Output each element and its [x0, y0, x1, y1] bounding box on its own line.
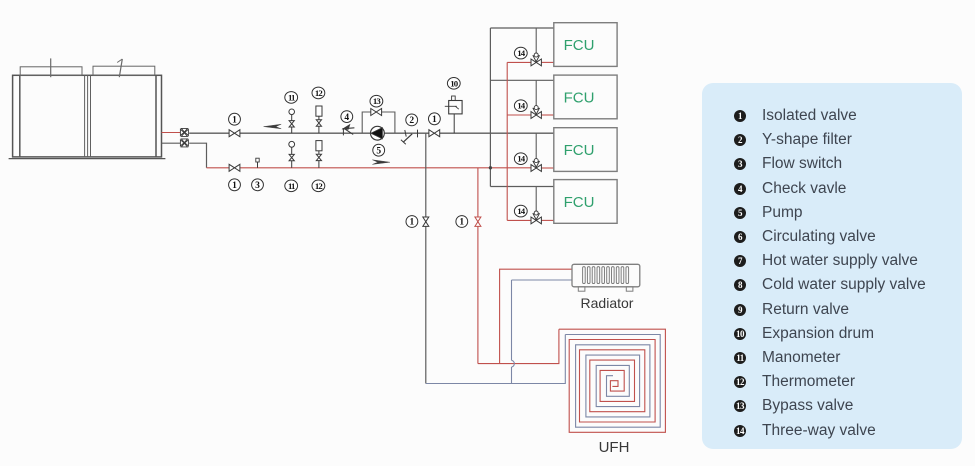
label 13 — [370, 95, 383, 107]
drop to valve FCU4 — [535, 187, 537, 213]
label 1 bottom — [229, 179, 241, 191]
svg-text:1: 1 — [232, 181, 237, 191]
valve 1 bottom — [229, 164, 240, 171]
drop to valve FCU3 — [535, 133, 537, 160]
union — [417, 130, 419, 138]
radiator supply (red) — [500, 269, 572, 363]
svg-text:1: 1 — [232, 115, 237, 125]
svg-text:11: 11 — [288, 181, 295, 191]
svg-text:2: 2 — [409, 116, 414, 126]
red run to UFH — [478, 329, 559, 363]
flex connector top — [180, 128, 188, 136]
three-way valve 14 FCU1 — [531, 53, 541, 66]
svg-text:1: 1 — [410, 218, 415, 228]
svg-text:FCU: FCU — [564, 142, 595, 159]
radiator return (blue) — [512, 280, 573, 384]
valve to FCU1 (red) — [541, 61, 554, 63]
wire bottom main (red) — [207, 167, 532, 169]
UFH blue coil — [565, 335, 660, 428]
UFH red coil — [559, 329, 666, 432]
header FCU2 — [490, 79, 553, 81]
expansion drum 10 — [445, 96, 462, 133]
header FCU1 — [490, 27, 553, 29]
svg-text:FCU: FCU — [564, 37, 595, 54]
return riser (red) — [506, 62, 508, 220]
heat pump unit — [9, 75, 166, 158]
three-way valve 14 FCU4 — [531, 211, 541, 224]
label 1 — [229, 113, 241, 125]
label 11 bottom — [285, 180, 298, 192]
valve 1 mid — [429, 130, 440, 137]
drop to valve FCU2 — [535, 80, 537, 107]
FCU box 2 — [554, 75, 617, 119]
supply riser — [489, 28, 491, 187]
label 1 supply drop — [406, 216, 418, 228]
label 2 — [406, 114, 418, 126]
svg-text:4: 4 — [344, 113, 349, 123]
valve 1 supply drop — [423, 217, 429, 226]
valve 1 top — [229, 130, 240, 137]
wire supply stub (red) — [162, 132, 181, 134]
return stub FCU2 (red) — [507, 114, 531, 116]
fan 2 — [93, 59, 155, 77]
label 1 return drop — [456, 216, 468, 228]
valve to FCU4 (red) — [541, 219, 554, 221]
label 14 FCU3 — [514, 153, 527, 165]
FCU box 4 — [554, 180, 617, 224]
radiator label — [581, 295, 634, 311]
svg-text:FCU: FCU — [564, 194, 595, 211]
label 14 FCU1 — [514, 47, 527, 59]
FCU box 3 — [554, 128, 617, 172]
return stub FCU4 (red) — [507, 219, 531, 221]
svg-text:Radiator: Radiator — [581, 295, 634, 311]
label 12 — [312, 87, 325, 99]
wire return elbow — [189, 143, 206, 168]
label 1 mid — [429, 113, 441, 125]
label 12 bottom — [312, 180, 325, 192]
thermometer top — [316, 106, 322, 133]
check valve 4 — [342, 125, 354, 136]
svg-text:5: 5 — [376, 146, 381, 156]
svg-text:UFH: UFH — [599, 439, 630, 456]
valve to FCU2 (red) — [541, 114, 554, 116]
return drop (red) — [477, 168, 479, 364]
thermometer bottom — [316, 141, 322, 168]
label 14 FCU2 — [514, 100, 527, 112]
svg-text:11: 11 — [288, 92, 295, 102]
label 3 — [252, 179, 264, 191]
radiator — [572, 264, 640, 291]
fan 1 — [20, 58, 82, 77]
pump 5 — [371, 126, 385, 140]
wire return stub — [162, 142, 181, 144]
svg-text:FCU: FCU — [564, 90, 595, 107]
bypass loop — [362, 112, 395, 133]
UFH label — [599, 439, 630, 456]
flow arrow right — [372, 160, 390, 165]
label 5 — [373, 144, 385, 156]
flow switch 3 — [256, 158, 259, 168]
label 10 — [447, 78, 460, 90]
supply drop — [425, 133, 427, 383]
return stub FCU1 (red) — [507, 61, 531, 63]
FCU box 1 — [554, 23, 617, 67]
manometer bottom — [289, 141, 295, 167]
flex connector bottom — [180, 139, 188, 147]
header FCU4 — [490, 186, 553, 188]
label 4 — [341, 111, 353, 123]
label 11 — [285, 92, 298, 104]
svg-text:1: 1 — [459, 218, 464, 228]
valve to FCU3 (red) — [541, 167, 554, 169]
three-way valve 14 FCU2 — [531, 106, 541, 119]
junction node — [489, 166, 492, 169]
valve 1 return drop — [475, 217, 481, 226]
flow arrow left — [264, 124, 282, 129]
blue run to UFH — [426, 335, 566, 384]
three-way valve 14 FCU3 — [531, 159, 541, 172]
drop to valve FCU1 — [535, 28, 537, 55]
legend panel — [702, 83, 962, 449]
svg-text:1: 1 — [432, 115, 437, 125]
bypass valve 13 — [371, 109, 382, 116]
manometer top — [289, 109, 295, 133]
wire top main — [189, 132, 554, 134]
svg-text:3: 3 — [255, 181, 260, 191]
y-filter 2 — [401, 130, 412, 144]
label 14 FCU4 — [514, 205, 527, 217]
